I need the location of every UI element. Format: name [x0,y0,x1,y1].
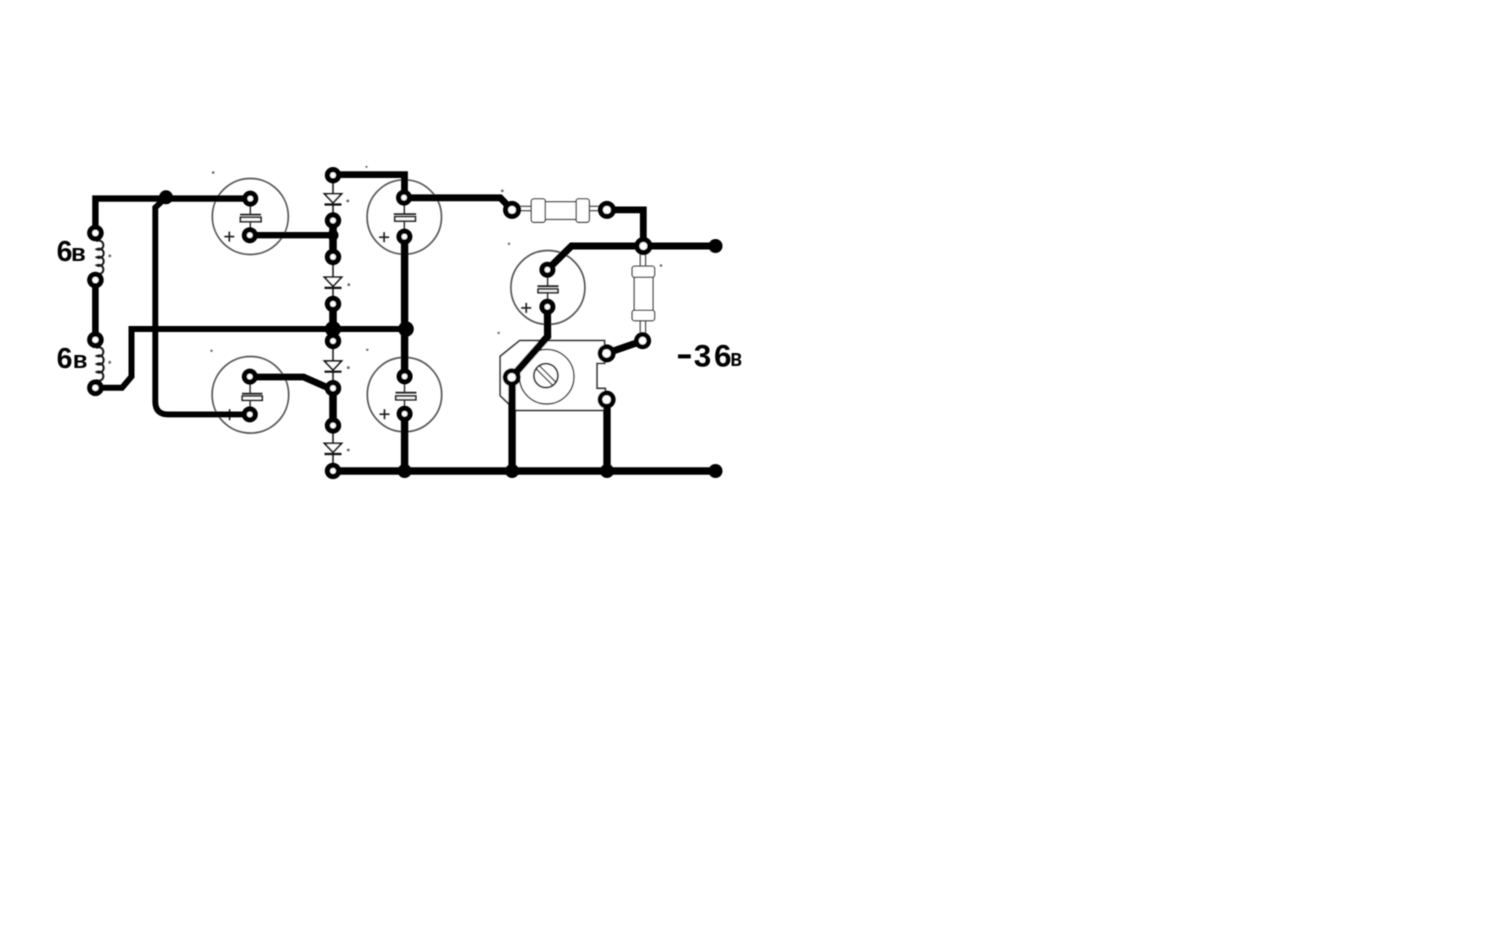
wire C5 bottom pad to ground bus [401,414,408,471]
wire R1 right pad down to node pad [607,210,643,246]
pad trimmer bottom-right [598,391,616,409]
pad C3 bottom [539,299,555,315]
pad diode column 6 [325,380,341,396]
wire trimmer left pad to ground bus [508,385,515,471]
pad L2 top [87,332,104,349]
pad C4 bottom [242,406,258,422]
pad L1 bottom [87,272,104,289]
diode VD4 [325,433,342,463]
wire top diode pad to C2 top pad [333,175,405,198]
capacitor C4 outline circle [212,357,289,434]
resistor R2 body [632,266,655,321]
pad diode column 5 [325,333,341,349]
wire C2 top pad to R1 left pad [404,198,512,210]
pad C2 bottom [396,229,412,245]
pad C1 top [242,191,258,207]
pad R1 right [598,201,616,219]
junction diode column mid bus [325,321,341,337]
pad C2 top [396,190,412,206]
svg-text:в: в [730,344,742,372]
wire diode column segment 3 [329,388,337,425]
pad C5 top [397,368,413,384]
label -36v output [678,338,742,374]
junction ground bus trimmer right [600,464,614,478]
diode VD2 [325,265,342,297]
svg-text:6: 6 [57,343,73,375]
capacitor C1 outline circle [212,179,288,255]
speck dots [108,166,662,452]
junction ground bus trimmer left [505,464,519,478]
trimmer RP1 rotor circle [519,349,574,404]
capacitor C2 plates [394,204,416,231]
pad R2 top [634,237,652,255]
pad C5 bottom [397,406,413,422]
pad diode column 2 [325,212,341,228]
output terminal dot bottom [709,464,723,478]
wire junction A down left column to C4 bottom pad [155,198,250,415]
svg-text:в: в [73,347,88,374]
wire trimmer top-right pad to R2 bottom pad [607,341,643,353]
capacitor C4 plates [242,383,262,408]
resistor R2 leads [640,254,645,334]
resistor R1 leads [520,206,599,210]
wire L1 bottom pad to L2 top pad [92,280,99,340]
wire L1 top pad to C1 top pad [95,199,250,233]
winding L2 coil [96,347,103,381]
wire C3 top pad to output node [547,246,715,270]
wire C4 top pad to diode column [250,377,333,388]
label 6v upper winding [57,236,86,268]
pad diode column 3 [325,249,341,265]
pad trimmer top-right [598,344,616,362]
diode VD3 [325,349,342,381]
pad L1 top [87,225,104,242]
capacitor C4 plus mark [224,409,235,420]
pad C4 top [242,369,258,385]
wire ground bus [333,467,716,475]
pad diode column 4 [325,296,341,312]
wire diode column segment 2 [329,304,337,341]
capacitor C2 outline circle [367,180,441,254]
capacitor C1 plates [240,205,261,229]
capacitor C1 plus mark [224,232,234,242]
junction C1 wire to diode column [328,230,339,241]
capacitor C5 plus mark [380,409,390,419]
svg-text:в: в [71,240,86,267]
junction node A [159,190,173,204]
wire C1 bottom pad to diode column [250,232,333,238]
diode VD1 [325,183,342,213]
pad R1 left [503,201,521,219]
capacitor C3 outline circle [511,251,585,325]
pad diode column 8 [325,463,341,479]
wire diode column segment 1 [329,221,337,257]
pad R2 bottom [634,332,651,349]
wire L2 bottom pad to mid bus [95,329,406,388]
trimmer RP1 screw head [534,364,558,388]
trimmer RP1 body outline [500,341,605,411]
capacitor C3 plus mark [521,303,531,313]
wire C2 bottom pad down to C5 top pad [401,237,408,377]
resistor R1 body [531,199,589,222]
pad C1 bottom [242,227,258,243]
junction mid bus right end [398,321,414,337]
pad diode column 7 [325,417,341,433]
junction ground bus C5 [398,464,412,478]
capacitor C2 plus mark [379,232,389,242]
winding L1 coil [96,241,103,275]
pad trimmer left [503,368,521,386]
wire C3 bottom pad to trimmer left pad [512,307,548,378]
wire trimmer bottom pad to ground bus [603,407,610,471]
label 6v lower winding [57,343,88,375]
svg-text:36: 36 [694,338,734,374]
output terminal dot top [709,239,723,253]
pad L2 bottom [87,380,104,397]
pad diode column 1 [325,167,341,183]
capacitor C5 outline circle [367,357,441,431]
capacitor C3 plates [537,276,558,301]
capacitor C5 plates [396,383,417,407]
pad C3 top [539,262,555,278]
